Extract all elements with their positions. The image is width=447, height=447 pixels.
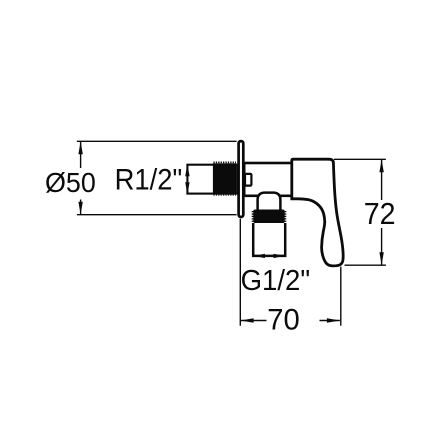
dim 70: dimension line right [320, 320, 340, 322]
svg-text:G1/2": G1/2" [241, 265, 311, 297]
dim R1/2: arrow up [185, 164, 189, 176]
outlet thread serration right [284, 211, 286, 222]
dim 70: arrow right [327, 318, 340, 322]
dim O50: arrow up [78, 141, 82, 154]
inlet pipe R1/2 nipple [187, 165, 237, 194]
outlet dome cap [258, 193, 281, 210]
svg-text:72: 72 [364, 196, 396, 231]
dim 72: extension line bottom [345, 264, 386, 266]
dim O50: extension line top [77, 140, 237, 142]
dim 72: arrow down [379, 252, 383, 265]
dim 70: dimension line left [241, 320, 267, 322]
dim 70: extension line right [340, 267, 342, 326]
svg-text:R1/2": R1/2" [115, 164, 183, 197]
thread serration bottom [213, 194, 236, 196]
dim 72: dimension line lower [381, 228, 383, 265]
thread serration top [213, 161, 236, 163]
svg-text:70: 70 [267, 304, 300, 337]
dim O50: dimension line lower [80, 200, 82, 215]
valve body block [244, 163, 292, 196]
dim O50: dimension line upper [80, 141, 82, 168]
svg-text:Ø50: Ø50 [45, 167, 96, 198]
inlet pipe thread (black) [213, 163, 236, 194]
dim 72: extension line top [334, 158, 386, 160]
dim 72: arrow up [379, 159, 383, 172]
dim 70: arrow left [241, 318, 254, 322]
dim 70: extension line left [239, 219, 241, 326]
handle lever [292, 159, 343, 266]
outlet tube [253, 223, 285, 256]
dim O50: extension line bottom [77, 214, 237, 216]
wall flange (escutcheon, side view) [239, 141, 244, 217]
retaining nut on flange [245, 174, 251, 186]
outlet thread serration left [252, 211, 254, 222]
outlet bore dimension arrows [254, 254, 285, 258]
outlet thread G1/2 (black) [253, 210, 284, 224]
dim R1/2: arrow down [185, 182, 189, 194]
dim O50: arrow down [78, 202, 82, 215]
dim 72: dimension line upper [381, 159, 383, 200]
